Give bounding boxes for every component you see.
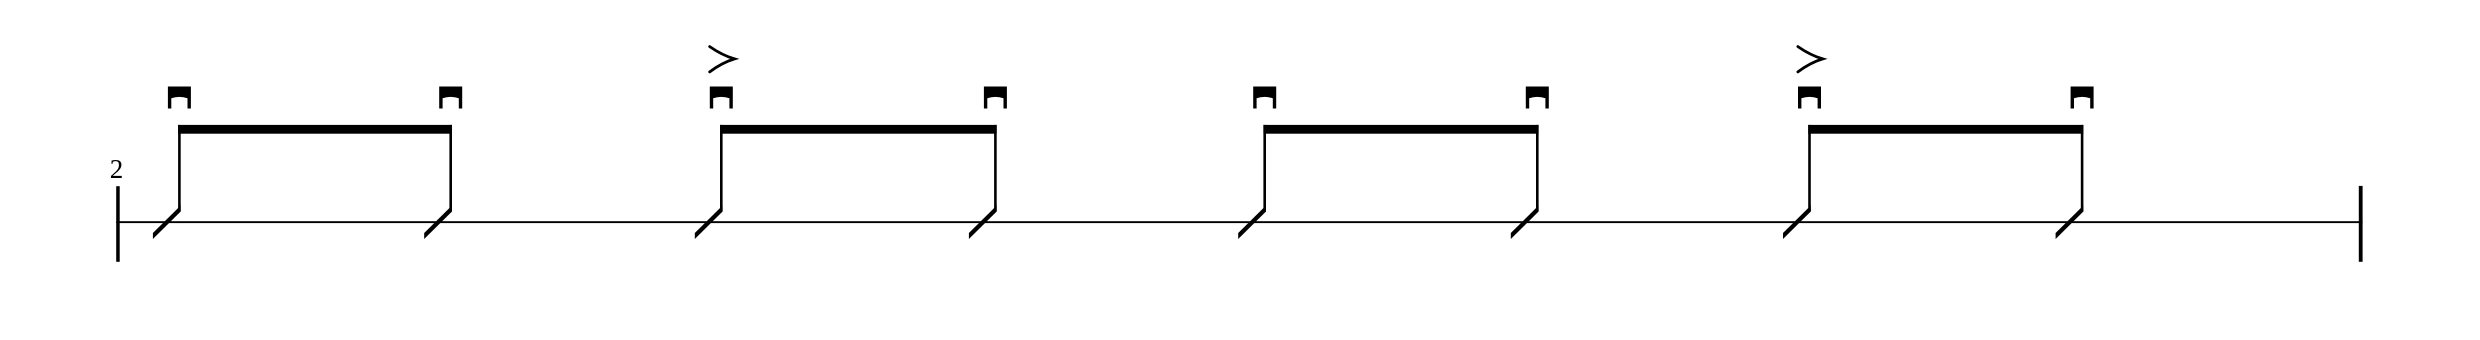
slash notehead note 4 bbox=[969, 206, 997, 240]
beam group 4 bbox=[1808, 125, 2083, 134]
down-bow mark note 4 bbox=[984, 87, 1007, 109]
beam group 3 bbox=[1263, 125, 1538, 134]
down-bow mark note 1 bbox=[168, 87, 191, 109]
stem note 6 bbox=[1536, 125, 1539, 211]
stem note 2 bbox=[449, 125, 452, 211]
down-bow mark note 2 bbox=[439, 87, 462, 109]
stem note 3 bbox=[720, 125, 723, 211]
slash notehead note 7 bbox=[1783, 206, 1811, 240]
accent note 7 bbox=[1798, 47, 1823, 72]
barline right (final) bbox=[2359, 186, 2363, 262]
beam group 2 bbox=[720, 125, 997, 134]
down-bow mark note 3 bbox=[710, 87, 733, 109]
slash notehead note 8 bbox=[2056, 206, 2084, 240]
slash notehead note 6 bbox=[1511, 206, 1539, 240]
svg-text:2: 2 bbox=[110, 154, 124, 184]
slash notehead note 5 bbox=[1238, 206, 1266, 240]
stem note 1 bbox=[178, 125, 181, 211]
slash notehead note 3 bbox=[695, 206, 723, 240]
staff line bbox=[116, 221, 2362, 223]
down-bow mark note 5 bbox=[1253, 87, 1276, 109]
down-bow mark note 8 bbox=[2071, 87, 2094, 109]
slash notehead note 1 bbox=[153, 206, 181, 240]
slash notehead note 2 bbox=[424, 206, 452, 240]
accent note 3 bbox=[710, 47, 735, 72]
stem note 7 bbox=[1808, 125, 1811, 211]
down-bow mark note 7 bbox=[1798, 87, 1821, 109]
down-bow mark note 6 bbox=[1526, 87, 1549, 109]
stem note 8 bbox=[2081, 125, 2084, 211]
barline left bbox=[116, 186, 120, 262]
stem note 5 bbox=[1263, 125, 1266, 211]
beam group 1 bbox=[178, 125, 452, 134]
stem note 4 bbox=[994, 125, 997, 211]
